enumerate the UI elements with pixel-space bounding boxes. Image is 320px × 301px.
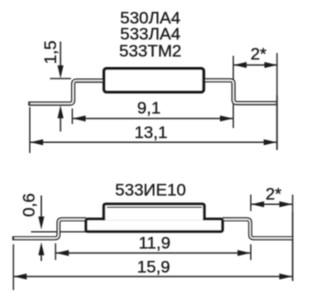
dimension 9,1 line and arrows <box>72 118 233 120</box>
package body flange (bottom, 533ИЕ10) <box>86 219 223 232</box>
svg-text:0,6: 0,6 <box>20 193 39 217</box>
package body (top, 530ЛА4 family) <box>104 69 204 93</box>
svg-text:533ТМ2: 533ТМ2 <box>119 41 181 60</box>
IC type labels 530ЛА4/533ЛА4/533ТМ2 <box>119 8 181 60</box>
lid seam line <box>107 206 202 208</box>
left lead (bottom package) <box>12 219 86 238</box>
15,9 right extension redrawn over lead tip <box>292 212 294 281</box>
dimension 11,9 left extension line <box>55 243 57 260</box>
dimension 0,6 upper arrow <box>40 196 42 222</box>
left lead (top package) <box>28 81 104 104</box>
dimension 15,9 left extension line <box>12 244 14 290</box>
dimension 13,1 left extension line <box>29 107 31 153</box>
dimension 9,1 left extension line <box>71 109 73 125</box>
dimension 13,1 line and arrows <box>30 141 277 143</box>
svg-text:2*: 2* <box>265 184 281 203</box>
right lead (top package) <box>204 80 277 103</box>
dimension 2* (bottom) right extension line / 15,9 right extension <box>292 195 294 281</box>
svg-text:9,1: 9,1 <box>137 99 161 118</box>
dimension 2* (bottom) line and arrows <box>251 203 293 205</box>
right lead (bottom package) <box>223 219 294 238</box>
dimension 2* (top) left extension line <box>232 56 234 128</box>
svg-text:533ИЕ10: 533ИЕ10 <box>115 181 186 200</box>
svg-text:1,5: 1,5 <box>41 40 60 64</box>
svg-text:11,9: 11,9 <box>139 234 171 253</box>
dimension 2* (bottom) left extension line <box>250 195 252 212</box>
dimension 11,9 line and arrows <box>56 252 251 254</box>
dimension 1,5 lower arrow <box>60 112 62 132</box>
dimension 2* (top) line and arrows <box>233 64 277 66</box>
13,1 right extension redrawn over lead tip <box>276 95 278 150</box>
dimension 0,6 lower arrow <box>40 249 42 261</box>
dimension 1,5 extension line <box>50 78 71 80</box>
package body raised lid (bottom) <box>104 204 205 220</box>
dimension 0,6 extension line (body bottom extended) <box>31 231 86 233</box>
dimension 11,9 right extension line <box>250 244 252 260</box>
svg-text:15,9: 15,9 <box>137 257 170 276</box>
svg-text:13,1: 13,1 <box>134 123 167 142</box>
svg-text:2*: 2* <box>250 44 266 63</box>
dimension 2* (top) right extension line / 13,1 right extension <box>276 53 278 150</box>
dimension 15,9 line and arrows <box>13 276 292 278</box>
dimension 1,5 upper arrow <box>60 42 62 71</box>
